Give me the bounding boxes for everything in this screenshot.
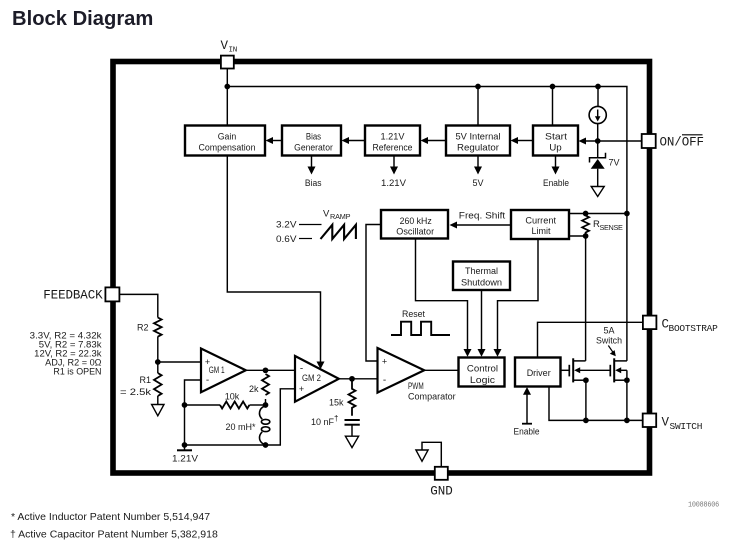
svg-text:Switch: Switch: [596, 335, 622, 345]
svg-text:Regulator: Regulator: [457, 142, 499, 152]
label PWM Comparator: [408, 381, 456, 402]
svg-text:10088606: 10088606: [688, 502, 719, 510]
wire RSENSE to switch drain: [585, 236, 587, 361]
svg-text:PWM: PWM: [408, 381, 424, 391]
resistor RSENSE: [582, 214, 589, 235]
node VIN junction: [224, 84, 230, 90]
capacitor 10nF: [345, 420, 360, 436]
IC boundary border: [113, 62, 650, 474]
label RSENSE: [593, 219, 623, 232]
pin VSWITCH: [643, 414, 703, 433]
svg-text:+: +: [382, 357, 387, 367]
wire oscillator ramp to PWM + input: [366, 225, 381, 362]
box Thermal Shutdown: [453, 262, 510, 291]
node sense top left: [583, 211, 589, 217]
svg-text:Enable: Enable: [514, 426, 540, 436]
label 3.2V level: [276, 220, 322, 230]
svg-text:Gain: Gain: [218, 132, 237, 142]
svg-text:V: V: [662, 416, 670, 430]
svg-text:* Active Inductor Patent Numbe: * Active Inductor Patent Number 5,514,94…: [11, 511, 210, 523]
wire top supply bus: [227, 87, 627, 361]
svg-text:Thermal: Thermal: [465, 266, 498, 276]
wire Q1 source down: [585, 380, 587, 420]
node switch source 2: [624, 418, 630, 424]
wire GND internal: [422, 442, 441, 467]
svg-text:Up: Up: [549, 142, 562, 152]
node ON/OFF zener junction: [595, 138, 601, 144]
svg-text:Bias: Bias: [305, 178, 322, 188]
node GM2 out: [349, 376, 355, 382]
svg-text:Shutdown: Shutdown: [461, 278, 502, 288]
box Start Up: [533, 126, 578, 156]
svg-text:Driver: Driver: [527, 368, 551, 378]
svg-text:Freq. Shift: Freq. Shift: [459, 210, 506, 220]
op-amp GM1: [201, 349, 246, 393]
pin VIN: [221, 39, 237, 69]
wire Reference to Bias Generator arrow: [342, 137, 366, 144]
svg-text:R2: R2: [137, 323, 149, 333]
node 10k left: [182, 402, 188, 408]
svg-text:Compensation: Compensation: [199, 142, 256, 152]
arrow 1.21V output: [381, 156, 406, 188]
svg-text:† Active Capacitor Patent Numb: † Active Capacitor Patent Number 5,382,9…: [10, 529, 218, 541]
wire left branch down: [184, 405, 186, 445]
svg-text:Reference: Reference: [373, 142, 413, 152]
svg-text:GND: GND: [430, 485, 453, 499]
svg-text:Bias: Bias: [306, 132, 322, 142]
svg-text:5A: 5A: [603, 325, 614, 335]
node rail left: [182, 442, 188, 448]
svg-text:0.6V: 0.6V: [276, 234, 297, 244]
wire current source to ON/OFF node: [597, 124, 599, 157]
resistor 2k: [262, 374, 269, 395]
svg-text:-: -: [383, 375, 386, 386]
resistor R2: [154, 318, 162, 337]
wire Bias Generator to Gain Compensation arrow: [266, 137, 283, 144]
wire current limit sense bottom: [569, 235, 586, 237]
svg-text:SENSE: SENSE: [600, 223, 623, 232]
label VRAMP: [323, 209, 351, 222]
wire node to GM1 +: [158, 361, 201, 363]
wire Q2 source down: [626, 380, 628, 420]
svg-text:1.21V: 1.21V: [381, 132, 405, 142]
box Gain Compensation: [185, 126, 265, 156]
svg-text:10k: 10k: [225, 392, 240, 402]
svg-text:3.2V: 3.2V: [276, 220, 297, 230]
svg-text:20 mH*: 20 mH*: [226, 422, 256, 432]
svg-text:10 nF: 10 nF: [311, 417, 335, 427]
svg-text:V: V: [221, 39, 229, 53]
arrow 5V output: [472, 156, 483, 188]
svg-text:1.21V: 1.21V: [381, 178, 406, 188]
wire current source top feed: [597, 87, 599, 107]
svg-text:= 2.5k: = 2.5k: [120, 387, 152, 397]
wire GM2 output: [339, 378, 378, 380]
ground 10nF: [345, 436, 358, 447]
wire oscillator to control logic: [416, 239, 472, 357]
wire bottom rail: [185, 389, 296, 445]
wire driver gate line: [561, 369, 569, 371]
pin GND: [430, 467, 453, 499]
node rail inductor: [263, 442, 269, 448]
svg-text:5V Internal: 5V Internal: [456, 132, 501, 142]
waveform sawtooth ramp: [321, 225, 356, 239]
svg-text:Comparator: Comparator: [408, 391, 456, 401]
svg-text:IN: IN: [229, 47, 237, 55]
wire gain comp to GM2 arrow: [227, 156, 324, 370]
node bus to current source: [595, 84, 601, 90]
inductor 20mH: [259, 406, 269, 445]
svg-text:Logic: Logic: [470, 375, 496, 385]
svg-text:Start: Start: [545, 132, 568, 142]
transistor Q2 5A switch: [610, 358, 627, 382]
node bus to start up: [550, 84, 556, 90]
svg-text:+: +: [299, 384, 304, 394]
resistor R1: [154, 373, 162, 396]
pin ON/OFF: [642, 134, 704, 150]
wire Start Up to Regulator arrow: [511, 137, 534, 144]
wire CBOOTSTRAP to driver: [538, 322, 643, 357]
svg-text:RAMP: RAMP: [330, 212, 351, 221]
wire VIN stub: [226, 68, 228, 126]
svg-text:Generator: Generator: [294, 142, 333, 152]
wire start up top feed: [552, 87, 554, 126]
svg-text:260 kHz: 260 kHz: [400, 216, 433, 226]
wire current limit to control logic: [494, 239, 539, 357]
wire driver to VSWITCH rail: [549, 387, 643, 421]
wire feedback to R2: [119, 294, 157, 317]
svg-text:Block Diagram: Block Diagram: [12, 8, 153, 30]
pin FEEDBACK: [43, 287, 119, 302]
wire GM1 output: [246, 369, 295, 371]
zener diode D1 7V: [590, 153, 606, 186]
rail 1.21V: [172, 445, 198, 464]
wire GM1 - input: [185, 380, 202, 405]
svg-text:GM 2: GM 2: [302, 373, 321, 383]
op-amp PWM comparator: [378, 348, 425, 393]
svg-text:Control: Control: [467, 363, 498, 373]
node feedback divider: [155, 359, 161, 365]
label 0.6V level: [276, 234, 312, 244]
op-amp GM2: [295, 356, 339, 402]
svg-text:V: V: [323, 209, 330, 220]
waveform reset pulses: [391, 322, 450, 335]
wire current limit sense top: [569, 213, 627, 215]
node sense bottom: [583, 233, 589, 239]
svg-text:GM 1: GM 1: [209, 365, 225, 375]
pin CBOOTSTRAP: [643, 316, 718, 334]
node Q1 source body: [583, 377, 589, 383]
arrow zener down: [591, 187, 604, 197]
svg-text:†: †: [334, 414, 338, 423]
svg-text:2k: 2k: [249, 384, 259, 394]
box Driver: [515, 358, 561, 387]
resistor 10k: [185, 402, 266, 409]
label 10nF: [311, 414, 338, 427]
resistor 15k: [349, 379, 356, 416]
node switch source 1: [583, 418, 589, 424]
wire R2 to node: [157, 337, 159, 374]
wire PWM output to control logic: [424, 369, 458, 371]
ground R1: [152, 405, 164, 416]
svg-text:1.21V: 1.21V: [172, 454, 198, 464]
wire 5V regulator top feed: [477, 87, 479, 126]
arrow Bias output: [305, 156, 322, 188]
label 5A Switch: [596, 325, 622, 356]
svg-text:R1 is OPEN: R1 is OPEN: [53, 367, 101, 377]
arrow Enable to driver: [514, 387, 540, 436]
transistor Q1 sense FET: [569, 358, 609, 382]
svg-text:FEEDBACK: FEEDBACK: [43, 289, 103, 303]
node bus to 5V regulator: [475, 84, 481, 90]
node Q2 source body: [624, 377, 630, 383]
arrow GND down: [416, 450, 428, 461]
svg-text:SWITCH: SWITCH: [670, 421, 703, 432]
wire thermal shutdown to control logic: [478, 290, 486, 357]
svg-text:R1: R1: [139, 375, 151, 385]
arrow Enable output: [543, 156, 569, 188]
label feedback resistor table: [30, 330, 102, 376]
svg-text:BOOTSTRAP: BOOTSTRAP: [669, 323, 719, 334]
node 2k 10k: [263, 402, 269, 408]
wire Regulator to Reference arrow: [421, 137, 447, 144]
box 5V Internal Regulator: [446, 126, 510, 156]
svg-text:-: -: [206, 375, 209, 386]
wire ON/OFF to Start Up arrow: [579, 138, 643, 145]
current source I1: [589, 106, 606, 123]
wire Current Limit to Oscillator arrow Freq. Shift: [450, 210, 512, 228]
node sense top right: [624, 211, 630, 217]
wire 2k to 10k node: [265, 399, 267, 406]
svg-text:Current: Current: [525, 215, 556, 225]
svg-text:Enable: Enable: [543, 178, 569, 188]
box Bias Generator: [282, 126, 341, 156]
svg-text:15k: 15k: [329, 397, 344, 407]
svg-text:Reset: Reset: [402, 309, 425, 319]
node GM1 out 2k: [263, 367, 269, 373]
wire R1 to ground: [157, 396, 159, 405]
svg-text:ON/OFF: ON/OFF: [660, 136, 704, 150]
svg-text:5V: 5V: [472, 178, 483, 188]
box Current Limit: [511, 210, 569, 239]
svg-text:7V: 7V: [609, 157, 620, 167]
box Control Logic: [459, 358, 505, 387]
svg-text:Limit: Limit: [532, 226, 551, 236]
box 1.21V Reference: [365, 126, 420, 156]
box 260 kHz Oscillator: [381, 210, 448, 239]
svg-text:Oscillator: Oscillator: [396, 227, 434, 237]
